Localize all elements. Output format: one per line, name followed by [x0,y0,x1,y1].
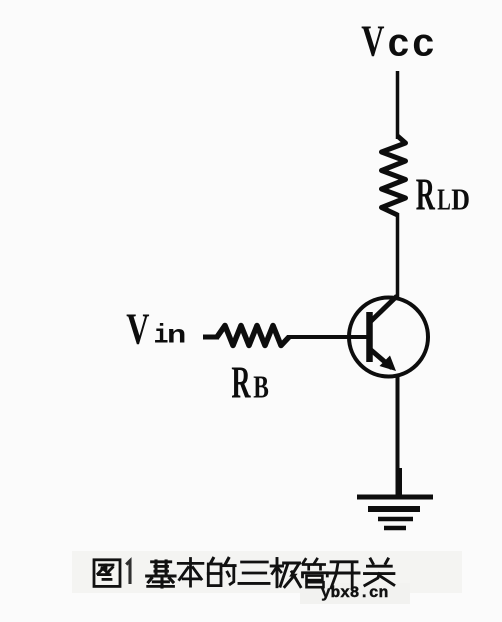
caption char 开 [329,562,359,588]
svg-text:c: c [412,24,436,68]
svg-text:B: B [253,370,269,405]
transistor emitter arrowhead [380,356,397,372]
wire base stub left [203,335,219,340]
resistor RB zigzag [217,326,289,346]
svg-text:L: L [437,183,451,217]
ground line 1 [357,495,433,500]
caption char 的 [208,558,235,585]
transistor Q1 circle [349,298,428,377]
label RLD [416,170,470,220]
label Vin [126,306,186,354]
wire collector top from Vcc [396,71,400,139]
caption char 基 [147,561,176,587]
transistor emitter diagonal [371,350,392,368]
wire base to transistor [287,335,367,339]
caption char 三 [239,562,269,583]
ground line 4 [384,526,406,531]
svg-text:n: n [167,322,187,350]
caption char 图 [94,560,120,587]
label Vcc [361,18,435,68]
transistor collector diagonal [370,296,397,322]
caption background jpeg-artifact band [72,551,462,593]
svg-text:R: R [231,357,250,407]
transistor base bar [366,312,373,362]
svg-text:V: V [361,18,384,66]
ground line 3 [378,517,413,522]
wire emitter down [396,376,400,498]
caption char 关 [365,559,394,585]
wire collector to transistor [396,213,400,298]
label RB [231,357,268,407]
caption char 1 [126,561,130,584]
wire emitter lower doubled segment [399,468,402,497]
svg-text:ybx8.cn: ybx8.cn [321,584,388,602]
caption: 图1 基本的三极管开关 [94,558,394,588]
ground line 2 [368,506,420,512]
svg-text:V: V [126,306,149,354]
resistor RLD [382,136,406,215]
svg-text:R: R [416,170,435,220]
caption char 极 [271,559,300,587]
caption char 管 [303,559,328,587]
caption char 本 [178,559,203,587]
svg-text:D: D [451,184,470,217]
svg-text:c: c [387,24,410,68]
